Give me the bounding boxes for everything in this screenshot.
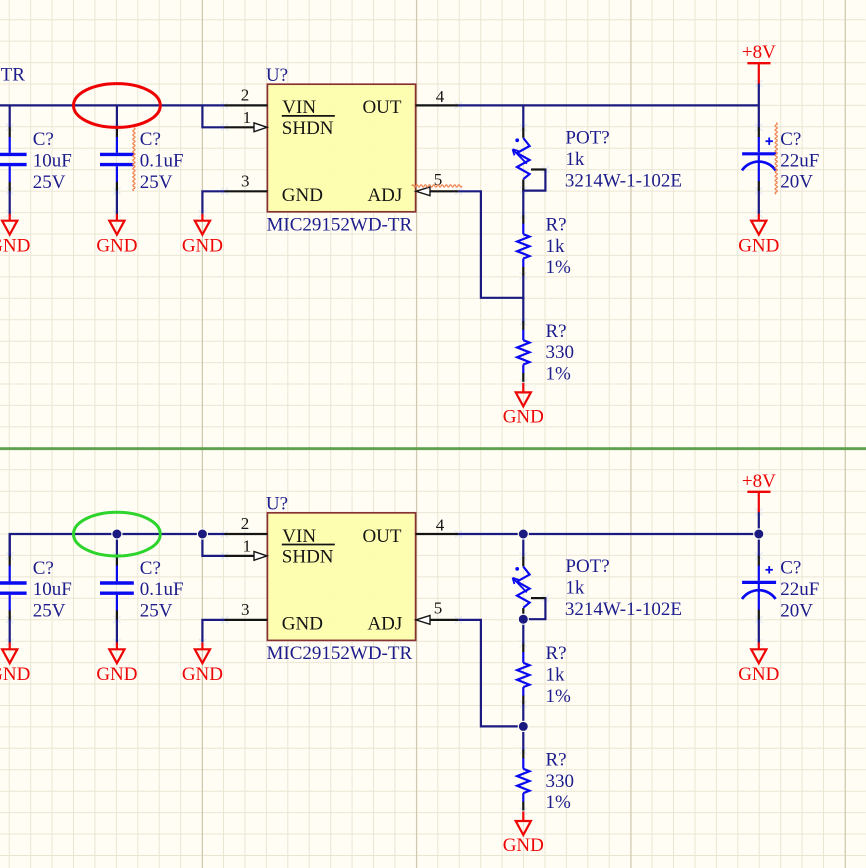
U? pin 1 SHDN with input arrow (bottom)	[225, 555, 255, 557]
svg-text:25V: 25V	[33, 172, 66, 193]
svg-text:GND: GND	[182, 235, 223, 256]
junction dot at POT top (bottom)	[518, 529, 528, 539]
U? SHDN overline (bottom)	[282, 544, 335, 546]
ground C2 (top)	[116, 214, 118, 221]
svg-text:3: 3	[241, 172, 250, 191]
svg-text:U?: U?	[266, 65, 288, 86]
svg-text:U?: U?	[266, 494, 288, 515]
capacitor C1 plates	[9, 137, 11, 153]
resistor R1 body	[522, 224, 524, 235]
svg-text:10uF: 10uF	[33, 579, 72, 600]
svg-text:GND: GND	[503, 406, 544, 427]
junction dot at ADJ feedback node (bottom)	[518, 721, 528, 731]
svg-text:GND: GND	[282, 185, 323, 206]
potentiometer POT? body (bottom)	[517, 567, 530, 608]
capacitor C1 pins	[9, 556, 11, 566]
resistor R2 body	[522, 758, 524, 769]
wire POT to R1 (bottom)	[522, 618, 524, 644]
svg-text:POT?: POT?	[565, 556, 609, 577]
wire C1 lower lead to ground (top)	[9, 190, 11, 214]
capacitor C3 22uF polarized (bottom)	[758, 556, 760, 566]
wire C2 lower lead to ground (top)	[116, 190, 118, 214]
svg-text:GND: GND	[282, 613, 323, 634]
wire C1 upper lead (top)	[9, 105, 11, 128]
wire C2 upper lead (top)	[116, 105, 118, 128]
svg-text:GND: GND	[96, 664, 137, 685]
svg-text:GND: GND	[738, 235, 779, 256]
junction dot at POT wiper loop (bottom)	[518, 614, 528, 624]
ground C2 (bottom)	[116, 642, 118, 649]
U? pin 4 OUT (bottom)	[416, 533, 459, 535]
ground C1 (top)	[9, 214, 11, 221]
svg-text:0.1uF: 0.1uF	[140, 579, 184, 600]
U? pin 5 ADJ with input arrow (top)	[430, 190, 459, 192]
wire POT to R1 (top)	[522, 190, 524, 216]
svg-text:22uF: 22uF	[780, 579, 819, 600]
capacitor C2 plates	[116, 137, 118, 153]
capacitor C1 pins	[9, 127, 11, 137]
svg-text:R?: R?	[546, 643, 567, 664]
svg-text:OUT: OUT	[362, 97, 401, 118]
resistor R1 pins	[522, 644, 524, 653]
junction dot at SHDN branch (bottom)	[197, 529, 207, 539]
U? pin 3 GND (bottom)	[225, 619, 268, 621]
svg-text:20V: 20V	[780, 172, 813, 193]
resistor R2 pins	[522, 750, 524, 759]
wire POT top lead (bottom)	[522, 534, 524, 556]
svg-text:C?: C?	[33, 558, 54, 579]
ground C3 (bottom)	[758, 642, 760, 649]
svg-text:1k: 1k	[565, 149, 585, 170]
junction dot at C2 node (bottom)	[112, 529, 122, 539]
svg-text:1k: 1k	[546, 236, 566, 257]
wire OUT net (bottom)	[458, 533, 758, 535]
capacitor C1 plates	[9, 566, 11, 582]
red highlight ellipse marking missing junction (top)	[74, 84, 161, 128]
wire POT wiper loop (top)	[522, 169, 545, 191]
pin hotspot markers (bottom)	[221, 530, 228, 537]
svg-text:25V: 25V	[140, 172, 173, 193]
svg-text:R?: R?	[546, 214, 567, 235]
svg-text:1: 1	[243, 108, 252, 127]
svg-text:SHDN: SHDN	[282, 547, 334, 568]
svg-text:0.1uF: 0.1uF	[140, 151, 184, 172]
svg-text:22uF: 22uF	[780, 150, 819, 171]
U? pin 1 SHDN with input arrow (top)	[225, 126, 255, 128]
wire OUT net (top)	[458, 104, 758, 106]
svg-text:1%: 1%	[546, 792, 572, 813]
ground C1 (bottom)	[9, 642, 11, 649]
svg-text:+8V: +8V	[742, 471, 776, 492]
svg-text:3: 3	[241, 600, 250, 619]
wire POT top lead (top)	[522, 105, 524, 127]
capacitor C2 plates	[116, 566, 118, 582]
pin hotspot markers (top)	[221, 102, 228, 109]
wire C2 upper lead (bottom)	[116, 534, 118, 557]
POT? wiper arrow (top)	[513, 149, 527, 164]
error squiggle on C2 (top)	[133, 128, 135, 191]
C3 plus sign (bottom)	[766, 569, 773, 571]
svg-text:330: 330	[546, 771, 575, 792]
svg-text:C?: C?	[33, 129, 54, 150]
wire C2 lower lead to ground (bottom)	[116, 619, 118, 643]
wire branch to SHDN pin (bottom)	[202, 534, 224, 556]
svg-text:C?: C?	[140, 558, 161, 579]
svg-text:3214W-1-102E: 3214W-1-102E	[565, 170, 682, 191]
svg-text:1k: 1k	[565, 578, 585, 599]
wire R1 bottom to node (bottom)	[522, 704, 524, 728]
svg-text:GND: GND	[0, 235, 30, 256]
svg-text:GND: GND	[738, 664, 779, 685]
svg-text:C?: C?	[780, 558, 801, 579]
svg-text:GND: GND	[182, 664, 223, 685]
error squiggle under pin 5 (top)	[412, 185, 462, 187]
svg-text:3214W-1-102E: 3214W-1-102E	[565, 599, 682, 620]
wire ADJ feedback (bottom)	[458, 620, 524, 727]
svg-text:1k: 1k	[546, 664, 566, 685]
U? pin 3 GND (top)	[225, 190, 268, 192]
svg-text:1: 1	[243, 536, 252, 555]
potentiometer POT? pins (bottom)	[522, 556, 524, 566]
POT? position dot (top)	[515, 138, 519, 142]
ground U? pin3 (bottom)	[201, 642, 203, 649]
U? pin 2 VIN (top)	[225, 104, 268, 106]
svg-text:1%: 1%	[546, 257, 572, 278]
capacitor C3 22uF polarized (top)	[758, 127, 760, 137]
svg-text:2: 2	[241, 85, 250, 104]
op-amp regulator U? MIC29152WD-TR body (top)	[267, 84, 415, 212]
svg-text:+8V: +8V	[742, 42, 776, 63]
potentiometer POT? body (top)	[517, 138, 530, 179]
svg-text:GND: GND	[503, 835, 544, 856]
wire C3 lower lead to ground (top)	[758, 190, 760, 214]
wire +8V stem to OUT net (bottom)	[758, 512, 760, 557]
svg-text:MIC29152WD-TR: MIC29152WD-TR	[267, 214, 413, 235]
wire C1 lower lead to ground (bottom)	[9, 619, 11, 643]
junction dot at +8V node (bottom)	[754, 529, 764, 539]
svg-text:10uF: 10uF	[33, 151, 72, 172]
wire node to R2 (top)	[522, 298, 524, 323]
wire main input net (top)	[0, 104, 225, 106]
U? pin 4 OUT (top)	[416, 104, 459, 106]
U? SHDN overline (top)	[282, 115, 335, 117]
svg-text:1%: 1%	[546, 364, 572, 385]
svg-text:SHDN: SHDN	[282, 118, 334, 139]
svg-text:TR: TR	[1, 64, 26, 85]
wire +8V stem to OUT net (top)	[758, 83, 760, 128]
svg-text:C?: C?	[780, 129, 801, 150]
op-amp regulator U? MIC29152WD-TR body (bottom)	[267, 513, 415, 641]
wire POT wiper loop (bottom)	[522, 597, 545, 619]
ground R2 (bottom)	[522, 811, 524, 821]
svg-text:GND: GND	[96, 235, 137, 256]
wire main input net (bottom)	[10, 534, 225, 557]
U? pin 2 VIN (bottom)	[225, 533, 268, 535]
potentiometer POT? pins (top)	[522, 128, 524, 138]
svg-text:POT?: POT?	[565, 128, 609, 149]
svg-text:ADJ: ADJ	[367, 185, 402, 206]
svg-text:25V: 25V	[140, 601, 173, 622]
resistor R1 pins	[522, 215, 524, 224]
U? pin 5 ADJ with input arrow (bottom)	[430, 619, 459, 621]
svg-text:R?: R?	[546, 321, 567, 342]
svg-text:R?: R?	[546, 749, 567, 770]
svg-text:25V: 25V	[33, 601, 66, 622]
svg-text:GND: GND	[0, 664, 30, 685]
svg-text:1%: 1%	[546, 686, 572, 707]
svg-text:C?: C?	[140, 129, 161, 150]
green highlight ellipse marking correct junction (bottom)	[74, 512, 161, 556]
wire C3 lower lead to ground (bottom)	[758, 619, 760, 643]
svg-text:4: 4	[436, 87, 445, 106]
C3 plus sign (top)	[766, 140, 773, 142]
ground U? pin3 (top)	[201, 214, 203, 221]
svg-text:4: 4	[436, 516, 445, 535]
wire node to R2 (bottom)	[522, 726, 524, 751]
svg-text:OUT: OUT	[362, 526, 401, 547]
wire C1 upper lead (bottom)	[9, 534, 11, 557]
POT? wiper arrow (bottom)	[513, 578, 527, 593]
svg-text:20V: 20V	[780, 600, 813, 621]
ground C3 (top)	[758, 214, 760, 221]
error squiggle on C3 (top)	[775, 123, 777, 194]
wire ADJ feedback (top)	[458, 191, 524, 297]
svg-text:MIC29152WD-TR: MIC29152WD-TR	[267, 643, 413, 664]
svg-text:2: 2	[241, 514, 250, 533]
wire GND pin 3 (top)	[202, 191, 224, 213]
svg-text:330: 330	[546, 342, 575, 363]
ground R2 (top)	[522, 383, 524, 393]
svg-text:5: 5	[434, 599, 443, 618]
resistor R2 pins	[522, 321, 524, 330]
capacitor C2 pins	[116, 556, 118, 566]
resistor R2 body	[522, 330, 524, 341]
wire GND pin 3 (bottom)	[202, 620, 224, 642]
wire branch to SHDN pin (top)	[202, 105, 224, 127]
POT? position dot (bottom)	[515, 567, 519, 571]
capacitor C2 pins	[116, 127, 118, 137]
svg-text:ADJ: ADJ	[367, 613, 402, 634]
green divider line between the two snippets	[0, 447, 866, 450]
resistor R1 body	[522, 652, 524, 663]
wire R1 bottom to node (top)	[522, 275, 524, 299]
